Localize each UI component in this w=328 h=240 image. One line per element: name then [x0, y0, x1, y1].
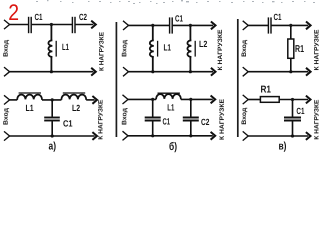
svg-text:R1: R1	[261, 85, 272, 96]
inductor L1 shunt	[150, 25, 154, 71]
node C1 bottom	[51, 134, 54, 137]
capacitor C1	[267, 17, 269, 33]
svg-text:К НАГРУЗКЕ: К НАГРУЗКЕ	[219, 98, 226, 140]
bottom wire	[248, 135, 308, 137]
input arrow bottom	[243, 67, 249, 76]
input arrow top	[123, 21, 129, 30]
core line of L2	[194, 41, 196, 57]
node C2 bottom	[189, 134, 192, 137]
capacitor C2	[71, 17, 73, 33]
capacitor C1 shunt	[152, 99, 154, 116]
svg-text:К НАГРУЗКЕ: К НАГРУЗКЕ	[217, 29, 224, 71]
svg-text:C2: C2	[79, 12, 87, 22]
node L1 bottom	[50, 70, 53, 73]
svg-text:R1: R1	[295, 44, 304, 55]
node C1 bottom	[291, 134, 294, 137]
input arrow top (Вход)	[4, 20, 10, 29]
wire top input to C1	[10, 24, 29, 26]
wire C1 to output	[272, 24, 309, 26]
wire to node	[128, 98, 156, 100]
inductor L2 shunt	[187, 25, 191, 71]
core line of L2	[63, 92, 85, 94]
inductor L2 series	[61, 95, 86, 100]
bottom wire	[10, 135, 95, 137]
node L1 bottom	[151, 70, 154, 73]
input arrow top	[243, 95, 249, 104]
capacitor C2 shunt	[190, 99, 192, 116]
output arrow top	[306, 96, 311, 104]
capacitor C1	[169, 17, 171, 33]
capacitor C1 shunt	[51, 100, 53, 117]
input arrow bottom	[123, 67, 129, 76]
input arrow bottom	[123, 131, 129, 140]
input arrow bottom	[4, 67, 10, 76]
core line of L1	[55, 41, 57, 57]
svg-text:C2: C2	[201, 117, 209, 127]
output arrow bottom	[306, 132, 311, 140]
node L1 top	[151, 24, 154, 27]
svg-text:C1: C1	[163, 117, 171, 127]
output arrow bottom	[211, 68, 216, 76]
node C1 bottom	[151, 134, 154, 137]
svg-text:К НАГРУЗКЕ: К НАГРУЗКЕ	[314, 99, 321, 140]
core line of L1	[19, 92, 41, 94]
svg-text:C1: C1	[63, 119, 73, 129]
capacitor C1 shunt	[292, 100, 294, 117]
svg-text:Вход: Вход	[3, 108, 10, 125]
svg-text:C1: C1	[35, 12, 43, 22]
svg-text:L1: L1	[26, 103, 34, 113]
output arrow top	[211, 96, 216, 104]
wire R1 to output	[279, 99, 308, 101]
capacitor C1	[28, 17, 30, 33]
bottom wire	[129, 71, 214, 73]
node L2 top	[189, 24, 192, 27]
divider line between column b and v	[237, 19, 239, 137]
inductor L1 series	[17, 95, 42, 100]
wire C1 to output	[173, 24, 213, 26]
svg-text:б): б)	[169, 141, 177, 153]
svg-text:в): в)	[279, 141, 287, 153]
input arrow top	[123, 95, 129, 104]
top wire to C1	[129, 24, 170, 26]
output arrow bottom	[92, 132, 97, 140]
node C1 top	[51, 98, 54, 101]
node C2 top	[189, 98, 192, 101]
svg-text:C1: C1	[274, 12, 282, 22]
svg-text:Вход: Вход	[241, 108, 248, 125]
output arrow bottom	[91, 68, 96, 76]
input arrow top	[243, 21, 249, 30]
output arrow bottom	[211, 132, 216, 140]
output arrow top	[91, 21, 96, 29]
svg-text:Вход: Вход	[3, 40, 10, 57]
resistor R1 series	[260, 97, 279, 103]
svg-text:Вход: Вход	[121, 108, 128, 125]
node R1 top	[289, 24, 292, 27]
svg-text:L1: L1	[164, 42, 172, 52]
inductor L1 shunt	[48, 25, 52, 72]
scan noise speckles along top edge	[36, 0, 315, 4]
bottom wire	[10, 71, 94, 73]
svg-text:L1: L1	[167, 103, 174, 113]
node R1 bottom	[289, 70, 292, 73]
svg-text:2: 2	[8, 0, 19, 25]
svg-text:L1: L1	[62, 42, 69, 52]
wire L2 to output	[86, 99, 94, 101]
wire L1 to L2	[42, 99, 61, 101]
resistor R1 shunt	[290, 25, 292, 39]
svg-text:C1: C1	[175, 14, 183, 24]
svg-text:а): а)	[49, 141, 57, 153]
output arrow bottom	[306, 68, 311, 76]
node C1 top	[291, 98, 294, 101]
core line of L1	[157, 41, 159, 57]
wire C2 to output arrow	[76, 24, 94, 26]
svg-text:Вход: Вход	[121, 40, 128, 57]
input arrow bottom	[4, 131, 10, 140]
core line of L1	[158, 92, 180, 94]
wire input to C1	[248, 24, 268, 26]
output arrow top	[306, 22, 311, 30]
wire C1 to C2	[32, 24, 72, 26]
node C1 top	[151, 98, 154, 101]
svg-text:L2: L2	[72, 103, 80, 113]
wire L1 to output	[181, 98, 213, 100]
bottom wire	[248, 71, 308, 73]
output arrow top	[211, 22, 216, 30]
bottom wire	[128, 135, 213, 137]
svg-text:К НАГРУЗКЕ: К НАГРУЗКЕ	[98, 99, 105, 140]
input arrow top	[4, 95, 10, 104]
node L2 bottom	[189, 70, 192, 73]
wire to L1	[10, 99, 18, 101]
svg-text:C1: C1	[296, 106, 304, 116]
divider line between column a and b	[115, 22, 117, 137]
inductor L1 series	[156, 94, 181, 99]
svg-text:К НАГРУЗКЕ: К НАГРУЗКЕ	[314, 29, 321, 71]
output arrow top	[92, 96, 97, 104]
svg-text:Вход: Вход	[241, 40, 248, 57]
input arrow bottom	[243, 131, 249, 140]
svg-text:L2: L2	[199, 39, 207, 49]
svg-text:К НАГРУЗКЕ: К НАГРУЗКЕ	[99, 31, 106, 71]
wire to R1	[248, 99, 260, 101]
node between C1 and C2	[50, 23, 53, 26]
